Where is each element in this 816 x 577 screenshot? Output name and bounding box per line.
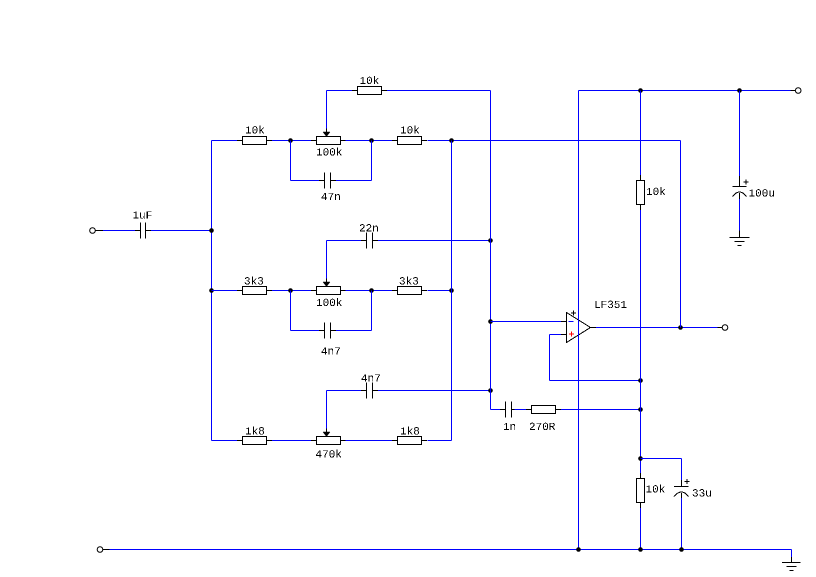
wire inverting input [491, 321, 562, 323]
wire row3 R-right to bus x=452 [428, 440, 452, 442]
wire bottom rail [110, 549, 792, 551]
capacitor 22n row2 feedback [360, 224, 378, 248]
wire 33u arm horizontal [641, 458, 682, 460]
wire row1 bypass right horiz [336, 180, 372, 182]
wire row3 4n7 left [327, 390, 362, 392]
node rail x=579 [576, 547, 581, 552]
node input bus row2 tap [209, 288, 214, 293]
wire row2 bypass right horiz [336, 330, 372, 332]
node divider to 33u arm [638, 456, 643, 461]
wire input bus vertical x=211 [211, 141, 213, 441]
capacitor 4n7 row3 feedback [361, 374, 380, 398]
wire feedback bus x=490 [490, 91, 492, 410]
wire row1 pot to node [346, 140, 393, 142]
wire row3 pot to R-right [346, 440, 393, 442]
wire noninverting stub [550, 334, 562, 336]
wire 1n branch corner [491, 409, 501, 411]
wire feedback top left [327, 90, 353, 92]
wire 100u to ground [739, 199, 741, 231]
wire op-amp output [596, 327, 718, 329]
capacitor 47n row1 bypass [319, 173, 340, 201]
wire row2 R-left to node [272, 290, 311, 292]
node row2 output junction [449, 288, 454, 293]
node output junction [678, 325, 683, 330]
wire pot1 wiper up-left riser [326, 91, 328, 129]
potentiometer 470k row3 (bass) [311, 428, 346, 458]
resistor 270R [526, 406, 561, 431]
wire row2 bypass left drop [290, 291, 292, 331]
resistor 10k row1 left [237, 126, 272, 145]
resistor 10k divider lower (vertical) [637, 473, 665, 508]
wire pot2 wiper riser [326, 241, 328, 279]
wire noninverting drop [549, 335, 551, 381]
wire row2 bus to R-left [212, 290, 238, 292]
wire row2 bypass left horiz [291, 330, 320, 332]
wire row2 pot to node [346, 290, 393, 292]
wire 33u to bottom rail [681, 498, 683, 550]
resistor 1k8 row3 right [392, 427, 427, 445]
node row1 left of pot [288, 138, 293, 143]
wire feedback top right to x=490 bus [387, 90, 491, 92]
ground bottom right [782, 557, 801, 571]
capacitor 100u electrolytic [733, 176, 774, 199]
wire C1 to input bus [151, 230, 212, 232]
wire 22n right to x=490 bus [378, 240, 491, 242]
node rail x=681 [679, 547, 684, 552]
wire divider bus middle [640, 210, 642, 473]
capacitor 4n7 row2 bypass [319, 323, 340, 355]
wire row1 R-right to opamp column [428, 140, 681, 142]
node row2 right of pot [369, 288, 374, 293]
resistor 10k row1 feedback (top) [352, 76, 387, 94]
wire divider bus upper [640, 91, 642, 176]
capacitor 33u electrolytic [674, 479, 711, 498]
wire bus x=452 rows join [451, 141, 453, 441]
wire pot3 wiper riser [326, 391, 328, 429]
wire output riser from row1 [680, 141, 682, 328]
node row1 output junction [449, 138, 454, 143]
node feedback bus inverting input [488, 319, 493, 324]
wire 22n left [327, 240, 362, 242]
wire 270R to ground bus [561, 409, 641, 411]
ground under 100u [730, 231, 750, 246]
op-amp U1 LF351 [561, 301, 626, 343]
node 22n to feedback bus [488, 238, 493, 243]
wire row1 bypass left drop [290, 141, 292, 181]
wire row1 bypass left horiz [291, 180, 320, 182]
node input bus tap [209, 228, 214, 233]
node row1 right of pot [369, 138, 374, 143]
node rail to 10k divider [638, 88, 643, 93]
terminal supply (top right) [791, 88, 802, 94]
wire row2 bypass right rise [371, 291, 373, 331]
terminal input (left) [90, 228, 103, 234]
wire row3 4n7 right to x=490 bus [378, 390, 491, 392]
wire bottom rail ground drop [791, 550, 793, 558]
resistor 10k row1 right [392, 126, 427, 145]
node rail x=640 [638, 547, 643, 552]
wire noninverting to ground bus [550, 380, 641, 382]
node rail to 100u [737, 88, 742, 93]
potentiometer 100k row2 (mid) [311, 278, 346, 306]
wire divider bus lower [640, 508, 642, 550]
resistor 3k3 row2 right [392, 277, 427, 295]
wire input terminal to C1 [103, 230, 135, 232]
capacitor 1n [500, 402, 517, 431]
wire 33u arm drop [681, 459, 683, 481]
wire row3 R-left to pot [272, 440, 311, 442]
wire 100u from rail [739, 91, 741, 177]
terminal output (right) [718, 325, 728, 331]
wire row1 R-left to node [272, 140, 311, 142]
wire 1n to 270R [515, 409, 527, 411]
wire supply bus x=579 [578, 91, 580, 550]
potentiometer 100k row1 (treble) [311, 128, 346, 156]
wire row1 bypass right rise [371, 141, 373, 181]
node noninverting feedback bus [638, 378, 643, 383]
resistor 1k8 row3 left [237, 427, 272, 445]
wire row2 R-right to bus x=452 [428, 290, 452, 292]
terminal common (bottom left) [97, 547, 109, 553]
resistor 10k divider upper (vertical) [637, 175, 666, 210]
node 4n7 to feedback bus [488, 388, 493, 393]
capacitor 1uF input coupling [133, 211, 151, 238]
resistor 3k3 row2 left [237, 277, 272, 295]
wire row1 bus to R-left [212, 140, 238, 142]
wire top supply rail [579, 90, 791, 92]
node row2 left of pot [288, 288, 293, 293]
wire row3 bus to R-left [212, 440, 238, 442]
node 270R ground bus [638, 407, 643, 412]
